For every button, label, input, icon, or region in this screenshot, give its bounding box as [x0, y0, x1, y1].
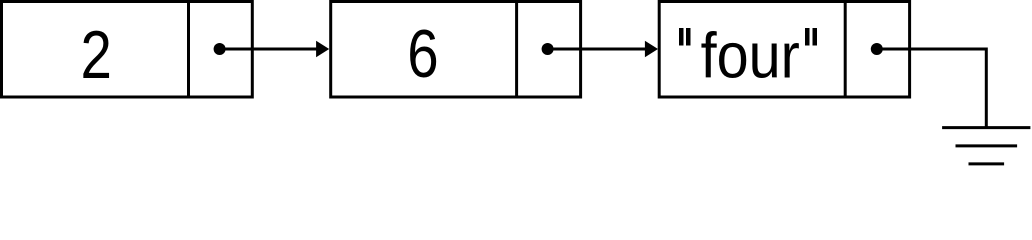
svg-text:four: four: [701, 20, 800, 91]
svg-text:2: 2: [81, 17, 112, 93]
svg-text:6: 6: [407, 16, 438, 92]
